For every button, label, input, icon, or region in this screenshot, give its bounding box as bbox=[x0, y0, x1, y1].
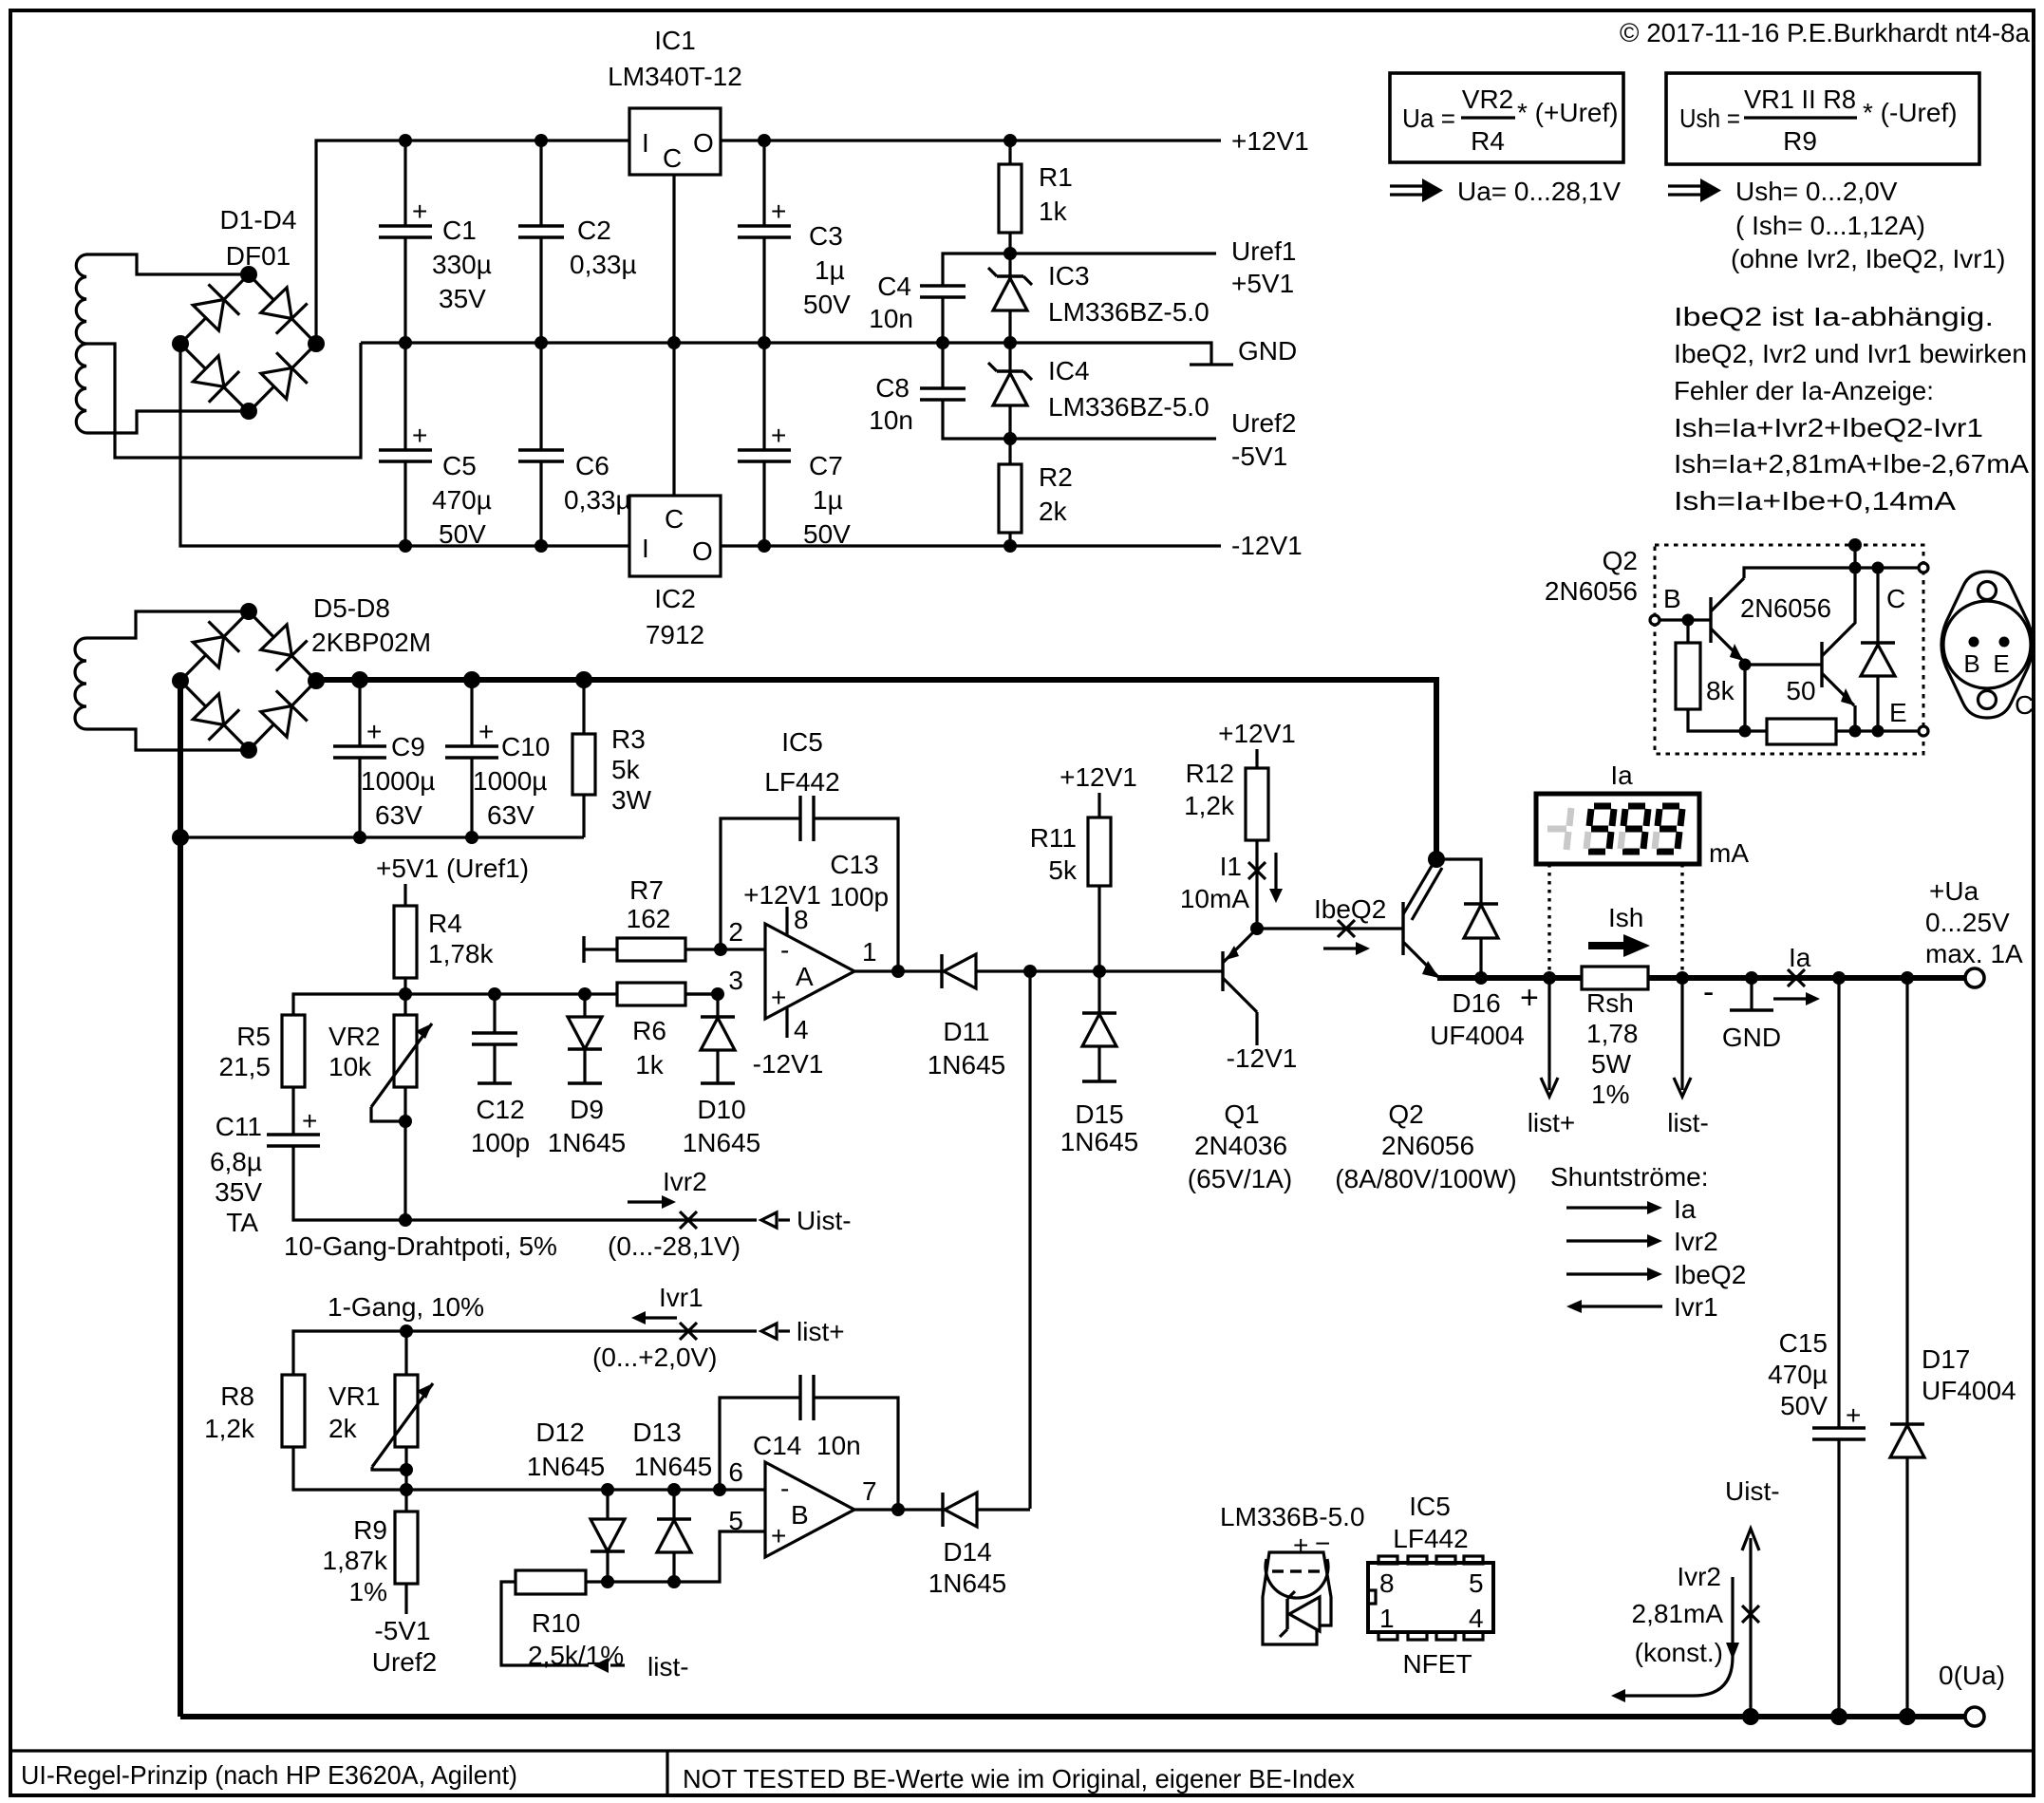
svg-text:+: + bbox=[771, 983, 786, 1012]
svg-text:63V: 63V bbox=[375, 800, 422, 830]
resistor 8k (inset) bbox=[1676, 620, 1745, 731]
svg-text:+5V1 (Uref1): +5V1 (Uref1) bbox=[376, 854, 529, 883]
svg-text:-5V1: -5V1 bbox=[1231, 441, 1287, 471]
svg-text:35V: 35V bbox=[439, 284, 486, 313]
svg-text:IC1: IC1 bbox=[654, 26, 696, 55]
svg-text:1000µ: 1000µ bbox=[473, 766, 547, 796]
resistor R5 bbox=[282, 1015, 305, 1135]
diode D1 (left-top edge) bbox=[193, 300, 224, 331]
svg-text:+: + bbox=[302, 1106, 317, 1136]
svg-text:R1: R1 bbox=[1039, 162, 1073, 192]
capacitor C13 bbox=[721, 796, 898, 971]
svg-text:1N645: 1N645 bbox=[527, 1452, 606, 1481]
arrow Uist- bbox=[761, 1212, 790, 1228]
wire Uist- sense line bbox=[399, 1213, 412, 1227]
svg-text:VR1: VR1 bbox=[328, 1381, 380, 1411]
svg-text:IbeQ2: IbeQ2 bbox=[1674, 1260, 1746, 1289]
svg-text:+12V1: +12V1 bbox=[743, 880, 821, 910]
svg-text:NFET: NFET bbox=[1402, 1649, 1472, 1679]
diode D5 (left-top edge) bbox=[193, 637, 224, 668]
diode D6 (top-right edge) bbox=[261, 625, 292, 656]
svg-text:IbeQ2: IbeQ2 bbox=[1314, 894, 1386, 924]
svg-text:1: 1 bbox=[1379, 1604, 1395, 1633]
inset dotted box bbox=[1655, 545, 1923, 754]
svg-text:R5: R5 bbox=[236, 1022, 271, 1051]
svg-text:LF442: LF442 bbox=[1393, 1524, 1468, 1553]
svg-text:O: O bbox=[693, 128, 714, 158]
transistor T1 (inset 2N6056 driver) bbox=[1711, 578, 1744, 661]
svg-text:5: 5 bbox=[1469, 1568, 1484, 1598]
svg-text:* (-Uref): * (-Uref) bbox=[1863, 98, 1958, 127]
svg-text:7912: 7912 bbox=[646, 620, 704, 649]
node D11 output junction bbox=[1023, 965, 1037, 978]
node bridge1 AC2 bbox=[240, 403, 257, 420]
title box divider bbox=[666, 1751, 668, 1795]
wire T2 top lead bbox=[86, 611, 249, 638]
wire W2 bottom lead to bridge AC2 bbox=[86, 411, 249, 433]
svg-text:2,81mA: 2,81mA bbox=[1632, 1599, 1724, 1628]
svg-text:IC5: IC5 bbox=[1409, 1492, 1451, 1521]
resistor R11 bbox=[1060, 762, 1137, 971]
svg-text:2N6056: 2N6056 bbox=[1545, 576, 1638, 606]
svg-text:4: 4 bbox=[1469, 1604, 1484, 1633]
arrow implies Ush bbox=[1668, 178, 1721, 202]
resistor R12 bbox=[1218, 719, 1296, 929]
svg-text:R2: R2 bbox=[1039, 462, 1073, 492]
svg-text:D14: D14 bbox=[943, 1537, 991, 1567]
diode D15 bbox=[1082, 971, 1116, 1081]
svg-text:UF4004: UF4004 bbox=[1922, 1376, 2016, 1405]
wire B to T1 base bbox=[1660, 618, 1711, 621]
svg-text:C4: C4 bbox=[877, 272, 911, 301]
capacitor C6 bbox=[518, 343, 564, 546]
diode D4 (bottom-right edge) bbox=[261, 368, 292, 400]
svg-text:2N6056: 2N6056 bbox=[1740, 593, 1831, 623]
svg-text:7: 7 bbox=[862, 1476, 877, 1506]
svg-text:Ush= 0...2,0V: Ush= 0...2,0V bbox=[1735, 177, 1898, 206]
terminal C (inset) bbox=[1919, 563, 1928, 573]
svg-text:0(Ua): 0(Ua) bbox=[1939, 1661, 2005, 1690]
svg-text:C15: C15 bbox=[1779, 1328, 1828, 1358]
svg-text:list-: list- bbox=[1667, 1108, 1709, 1137]
node bridge1 AC1 bbox=[240, 266, 257, 283]
svg-text:1k: 1k bbox=[635, 1050, 665, 1080]
svg-text:Ua =: Ua = bbox=[1402, 103, 1455, 133]
capacitor C12 bbox=[472, 994, 517, 1083]
svg-text:B: B bbox=[1963, 649, 1979, 678]
Q2 equivalent-circuit inset bbox=[1545, 538, 1928, 754]
diode D12 bbox=[591, 1490, 625, 1582]
svg-text:1,87k: 1,87k bbox=[323, 1546, 388, 1575]
svg-text:0...25V: 0...25V bbox=[1925, 908, 2010, 937]
svg-text:C11: C11 bbox=[216, 1112, 262, 1141]
svg-text:Ish=Ia+Ivr2+IbeQ2-Ivr1: Ish=Ia+Ivr2+IbeQ2-Ivr1 bbox=[1674, 413, 1983, 442]
svg-text:D5-D8: D5-D8 bbox=[313, 593, 390, 623]
svg-text:D15: D15 bbox=[1075, 1099, 1123, 1129]
svg-text:1000µ: 1000µ bbox=[361, 766, 435, 796]
svg-text:IbeQ2, Ivr2 und Ivr1 bewirken: IbeQ2, Ivr2 und Ivr1 bewirken bbox=[1674, 339, 2027, 368]
op-amp IC5A bbox=[728, 880, 876, 1079]
svg-text:IbeQ2 ist Ia-abhängig.: IbeQ2 ist Ia-abhängig. bbox=[1674, 302, 1994, 331]
dotted meter lead list- bbox=[1680, 864, 1683, 978]
potentiometer VR1 bbox=[372, 1331, 433, 1490]
svg-text:C1: C1 bbox=[442, 216, 477, 245]
svg-text:1,2k: 1,2k bbox=[1184, 791, 1235, 820]
svg-text:(65V/1A): (65V/1A) bbox=[1188, 1164, 1293, 1193]
svg-text:max. 1A: max. 1A bbox=[1925, 939, 2023, 968]
bridge rectifier D5-D8 2KBP02M bbox=[180, 611, 316, 750]
svg-text:C10: C10 bbox=[501, 732, 550, 761]
wire center tap to GND rail bbox=[86, 343, 361, 458]
svg-text:-5V1: -5V1 bbox=[374, 1616, 430, 1645]
digit 9 #3 bbox=[1655, 806, 1682, 852]
svg-text:O: O bbox=[692, 536, 713, 566]
arrow list+ down bbox=[1541, 971, 1558, 1097]
digit 9 #2 bbox=[1621, 806, 1648, 852]
terminal B (inset) bbox=[1650, 615, 1660, 625]
svg-text:Uref1: Uref1 bbox=[1231, 236, 1296, 266]
resistor R3 bbox=[572, 680, 595, 837]
svg-text:D12: D12 bbox=[535, 1418, 584, 1447]
svg-text:1N645: 1N645 bbox=[1060, 1127, 1139, 1156]
svg-text:+: + bbox=[1520, 980, 1539, 1016]
svg-text:3W: 3W bbox=[611, 785, 652, 815]
svg-text:Ish=Ia+Ibe+0,14mA: Ish=Ia+Ibe+0,14mA bbox=[1674, 486, 1956, 516]
svg-text:-12V1: -12V1 bbox=[1227, 1043, 1298, 1073]
wire top rail C bbox=[1855, 566, 1919, 569]
svg-text:D10: D10 bbox=[697, 1095, 745, 1124]
diode D2 (top-right edge) bbox=[261, 288, 292, 319]
svg-text:+12V1: +12V1 bbox=[1218, 719, 1296, 748]
svg-text:-12V1: -12V1 bbox=[1231, 531, 1303, 560]
svg-text:IC5: IC5 bbox=[781, 727, 823, 757]
svg-text:D13: D13 bbox=[632, 1418, 681, 1447]
diode D13 bbox=[657, 1490, 691, 1582]
node bridge2 AC2 bbox=[240, 742, 257, 759]
svg-text:63V: 63V bbox=[487, 800, 534, 830]
wire T1 emitter to T2 base bbox=[1745, 663, 1822, 666]
svg-text:I: I bbox=[642, 534, 649, 563]
svg-text:5: 5 bbox=[728, 1506, 743, 1535]
svg-text:10-Gang-Drahtpoti, 5%: 10-Gang-Drahtpoti, 5% bbox=[284, 1231, 557, 1261]
svg-text:1µ: 1µ bbox=[813, 485, 843, 515]
svg-text:6: 6 bbox=[728, 1457, 743, 1487]
svg-text:I: I bbox=[642, 128, 649, 158]
svg-text:R9: R9 bbox=[1783, 126, 1817, 156]
svg-text:C3: C3 bbox=[809, 221, 843, 251]
wire -12V1 rail after IC2 bbox=[721, 544, 1221, 547]
svg-text:C: C bbox=[1886, 584, 1905, 613]
svg-text:B: B bbox=[791, 1500, 809, 1530]
svg-text:VR2: VR2 bbox=[328, 1022, 380, 1051]
svg-text:10k: 10k bbox=[328, 1052, 372, 1081]
svg-text:Ia: Ia bbox=[1789, 943, 1811, 972]
node bridge2 AC1 bbox=[240, 603, 257, 620]
svg-text:Ia: Ia bbox=[1610, 761, 1633, 790]
terminal +Ua bbox=[1965, 968, 1984, 987]
wire +raw rail to IC1 bbox=[316, 141, 629, 344]
svg-text:100p: 100p bbox=[830, 882, 889, 911]
resistor R2 bbox=[999, 439, 1022, 546]
svg-text:A: A bbox=[796, 962, 814, 991]
svg-text:LM336BZ-5.0: LM336BZ-5.0 bbox=[1048, 297, 1210, 327]
svg-text:(konst.): (konst.) bbox=[1635, 1638, 1723, 1667]
svg-text:Q2: Q2 bbox=[1388, 1099, 1423, 1129]
svg-text:(8A/80V/100W): (8A/80V/100W) bbox=[1335, 1164, 1516, 1193]
capacitor C14 bbox=[720, 1375, 898, 1510]
svg-text:1,78: 1,78 bbox=[1586, 1019, 1639, 1048]
svg-text:1: 1 bbox=[862, 937, 877, 967]
svg-text:TA: TA bbox=[226, 1208, 258, 1237]
svg-text:4: 4 bbox=[794, 1015, 809, 1044]
svg-text:Q2: Q2 bbox=[1603, 546, 1638, 575]
svg-text:1N645: 1N645 bbox=[548, 1128, 627, 1157]
svg-text:E: E bbox=[1889, 698, 1907, 727]
svg-text:+: + bbox=[412, 197, 427, 226]
svg-text:Uist-: Uist- bbox=[797, 1206, 852, 1235]
diode D14 bbox=[943, 1493, 1030, 1527]
svg-text:Shuntströme:: Shuntströme: bbox=[1550, 1162, 1709, 1192]
svg-text:100p: 100p bbox=[471, 1128, 530, 1157]
pin 8 stub bbox=[785, 907, 788, 935]
svg-text:mA: mA bbox=[1709, 838, 1749, 868]
resistor R10 bbox=[501, 1570, 589, 1665]
wire op-amp A output bbox=[854, 969, 921, 972]
svg-text:D16: D16 bbox=[1452, 988, 1500, 1018]
svg-text:5k: 5k bbox=[1048, 855, 1078, 885]
svg-text:2k: 2k bbox=[1039, 497, 1068, 526]
IC5 DIP-8 package NFET bbox=[1368, 1492, 1493, 1679]
svg-text:Ivr2: Ivr2 bbox=[1674, 1227, 1718, 1256]
resistor 50 (inset) bbox=[1745, 719, 1919, 744]
svg-text:C13: C13 bbox=[830, 850, 878, 879]
diode D7 (left-bottom edge) bbox=[193, 694, 224, 725]
svg-text:1N645: 1N645 bbox=[928, 1568, 1007, 1598]
svg-text:Ivr1: Ivr1 bbox=[659, 1283, 703, 1312]
wire list+ line (VR1 top rail) bbox=[293, 1331, 757, 1375]
diode D16 bbox=[1436, 859, 1498, 978]
wire thick 0V vertical bbox=[178, 681, 183, 1717]
reference LM336B-5.0 symbol bbox=[1220, 1502, 1365, 1644]
svg-text:1%: 1% bbox=[349, 1577, 387, 1606]
svg-text:-: - bbox=[780, 1474, 789, 1503]
zener reference IC4 LM336BZ-5.0 bbox=[988, 343, 1032, 439]
svg-text:21,5: 21,5 bbox=[219, 1052, 272, 1081]
svg-text:50: 50 bbox=[1786, 676, 1815, 705]
diode D11 bbox=[921, 954, 1101, 988]
svg-text:2N4036: 2N4036 bbox=[1194, 1131, 1287, 1160]
svg-text:Ivr1: Ivr1 bbox=[1674, 1292, 1718, 1322]
svg-text:D1-D4: D1-D4 bbox=[220, 205, 297, 235]
svg-text:2,5k/1%: 2,5k/1% bbox=[528, 1641, 624, 1670]
svg-text:2KBP02M: 2KBP02M bbox=[311, 628, 431, 657]
terminal 0(Ua) bbox=[1965, 1707, 1984, 1726]
svg-text:1N645: 1N645 bbox=[683, 1128, 761, 1157]
current mark IbeQ2 bbox=[1323, 920, 1370, 955]
resistor R6 bbox=[617, 983, 718, 1005]
wire T2 bottom lead bbox=[86, 729, 249, 750]
svg-text:+: + bbox=[771, 1521, 786, 1550]
regulator IC2 7912 bbox=[629, 496, 721, 576]
node bridge2 plus bbox=[308, 672, 325, 689]
diode D17 bbox=[1890, 971, 1924, 1717]
formula box Ush bbox=[1666, 73, 1979, 164]
terminal E (inset) bbox=[1919, 726, 1928, 736]
svg-text:2: 2 bbox=[728, 917, 743, 947]
svg-text:DF01: DF01 bbox=[226, 241, 291, 271]
svg-text:Ivr2: Ivr2 bbox=[1677, 1562, 1721, 1591]
wire Vref set rail bbox=[293, 994, 718, 1015]
transformer T2 winding bbox=[75, 638, 86, 729]
arrow list- down bbox=[1674, 971, 1691, 1097]
svg-text:VR2: VR2 bbox=[1462, 85, 1513, 114]
wire IC1 common pin bbox=[672, 175, 675, 496]
transistor T2 (inset 2N6056 output) bbox=[1822, 568, 1855, 731]
svg-text:C14: C14 bbox=[753, 1431, 801, 1460]
svg-text:D9: D9 bbox=[570, 1095, 604, 1124]
capacitor C2 bbox=[518, 141, 564, 343]
svg-text:( Ish= 0...1,12A): ( Ish= 0...1,12A) bbox=[1735, 211, 1925, 240]
svg-text:0,33µ: 0,33µ bbox=[564, 485, 631, 515]
svg-text:(0...+2,0V): (0...+2,0V) bbox=[592, 1343, 718, 1372]
capacitor C8 bbox=[920, 343, 1010, 439]
svg-text:UI-Regel-Prinzip (nach HP E362: UI-Regel-Prinzip (nach HP E3620A, Agilen… bbox=[21, 1760, 517, 1790]
svg-text:R3: R3 bbox=[611, 724, 646, 754]
wire op-amp B output bbox=[854, 1508, 943, 1511]
capacitor C10 bbox=[445, 680, 498, 837]
pin 4 stub bbox=[785, 1008, 788, 1038]
svg-text:+: + bbox=[412, 421, 427, 450]
svg-text:R10: R10 bbox=[532, 1608, 580, 1638]
op-amp IC5B bbox=[728, 1457, 876, 1557]
capacitor C7 bbox=[738, 343, 791, 546]
wire Ush set rail bbox=[406, 1488, 765, 1491]
wire op-amp B plus input rail bbox=[586, 1531, 765, 1582]
svg-text:+: + bbox=[771, 421, 786, 450]
digit 9 #1 bbox=[1586, 806, 1614, 852]
svg-text:10n: 10n bbox=[869, 304, 913, 333]
svg-text:Ush =: Ush = bbox=[1679, 103, 1740, 133]
resistor R1 bbox=[999, 141, 1022, 254]
svg-text:162: 162 bbox=[627, 904, 671, 933]
svg-text:-: - bbox=[1703, 974, 1714, 1010]
wire +12V1 rail after IC1 bbox=[721, 139, 1221, 141]
svg-text:IC4: IC4 bbox=[1048, 356, 1090, 385]
ground symbol GND (top) bbox=[1190, 363, 1233, 366]
wire Uref1 line bbox=[943, 254, 1216, 286]
svg-text:-12V1: -12V1 bbox=[753, 1049, 824, 1079]
svg-text:5W: 5W bbox=[1591, 1049, 1632, 1079]
svg-text:list-: list- bbox=[647, 1652, 689, 1681]
svg-text:Rsh: Rsh bbox=[1586, 988, 1634, 1018]
svg-text:5k: 5k bbox=[611, 755, 641, 784]
wire IbeQ2 base line bbox=[1257, 927, 1403, 930]
svg-text:D11: D11 bbox=[943, 1017, 989, 1046]
svg-text:* (+Uref): * (+Uref) bbox=[1517, 98, 1619, 127]
svg-text:R8: R8 bbox=[220, 1381, 254, 1411]
capacitor C4 bbox=[920, 286, 966, 343]
svg-text:10n: 10n bbox=[869, 405, 913, 435]
resistor R4 bbox=[394, 884, 417, 994]
svg-text:Uref2: Uref2 bbox=[1231, 408, 1296, 438]
svg-text:D17: D17 bbox=[1922, 1344, 1970, 1374]
capacitor C3 bbox=[738, 141, 791, 343]
diode D8 (bottom-right edge) bbox=[261, 706, 292, 738]
svg-text:1N645: 1N645 bbox=[928, 1050, 1006, 1080]
node bridge1 plus bbox=[308, 335, 325, 352]
svg-text:GND: GND bbox=[1238, 336, 1297, 366]
wire T1 collector to top rail bbox=[1744, 568, 1855, 578]
node D16 anode on rail bbox=[1474, 971, 1488, 985]
svg-text:35V: 35V bbox=[215, 1177, 262, 1207]
svg-text:UF4004: UF4004 bbox=[1430, 1021, 1525, 1050]
svg-text:C12: C12 bbox=[476, 1095, 524, 1124]
wire raw bottom rail bbox=[180, 836, 584, 838]
svg-text:-: - bbox=[780, 935, 789, 965]
svg-text:IC2: IC2 bbox=[654, 584, 696, 613]
svg-text:10mA: 10mA bbox=[1180, 884, 1249, 913]
svg-text:LM336B-5.0: LM336B-5.0 bbox=[1220, 1502, 1365, 1531]
capacitor C9 bbox=[333, 680, 386, 837]
svg-text:+: + bbox=[1293, 1531, 1308, 1560]
svg-text:C9: C9 bbox=[391, 732, 425, 761]
capacitor C5 bbox=[379, 343, 432, 546]
svg-text:8: 8 bbox=[1379, 1568, 1395, 1598]
svg-text:Uref2: Uref2 bbox=[372, 1647, 437, 1677]
svg-text:+5V1: +5V1 bbox=[1231, 269, 1294, 298]
svg-text:(0...-28,1V): (0...-28,1V) bbox=[608, 1231, 741, 1261]
capacitor C1 bbox=[379, 141, 432, 343]
svg-text:C8: C8 bbox=[875, 373, 909, 403]
title separator line bbox=[10, 1749, 2033, 1752]
svg-text:50V: 50V bbox=[439, 519, 486, 549]
svg-text:LF442: LF442 bbox=[764, 767, 839, 797]
wire -raw rail (left of IC2) bbox=[180, 344, 629, 546]
svg-text:R4: R4 bbox=[428, 909, 462, 938]
svg-text:+: + bbox=[771, 197, 786, 226]
svg-text:R9: R9 bbox=[353, 1515, 387, 1545]
svg-text:+: + bbox=[366, 717, 382, 746]
svg-text:Ish: Ish bbox=[1608, 903, 1643, 932]
arrow list+ bbox=[761, 1324, 790, 1339]
svg-text:NOT TESTED BE-Werte wie im Or: NOT TESTED BE-Werte wie im Original, eig… bbox=[683, 1764, 1355, 1794]
svg-text:3: 3 bbox=[728, 966, 743, 995]
svg-text:6,8µ: 6,8µ bbox=[210, 1147, 262, 1176]
svg-text:list+: list+ bbox=[1528, 1108, 1576, 1137]
svg-text:C5: C5 bbox=[442, 451, 477, 480]
svg-text:1,78k: 1,78k bbox=[428, 939, 494, 968]
svg-text:470µ: 470µ bbox=[432, 485, 492, 515]
svg-text:330µ: 330µ bbox=[432, 250, 492, 279]
diode D10 bbox=[701, 994, 735, 1083]
svg-text:C: C bbox=[663, 143, 682, 173]
TO-3 package drawing bbox=[1941, 572, 2034, 720]
svg-text:Uist-: Uist- bbox=[1725, 1476, 1780, 1506]
svg-text:50V: 50V bbox=[803, 290, 851, 319]
svg-text:1µ: 1µ bbox=[815, 255, 845, 285]
wire W1 top lead to bridge AC1 bbox=[86, 254, 249, 274]
diode D9 bbox=[568, 994, 602, 1083]
svg-text:50V: 50V bbox=[1780, 1391, 1828, 1420]
node Q2 collector bbox=[1428, 851, 1445, 868]
svg-text:C: C bbox=[665, 504, 684, 534]
svg-text:1%: 1% bbox=[1591, 1080, 1629, 1109]
svg-text:1k: 1k bbox=[1039, 197, 1068, 226]
svg-text:IC3: IC3 bbox=[1048, 261, 1090, 291]
svg-text:GND: GND bbox=[1722, 1023, 1781, 1052]
svg-text:Ish=Ia+2,81mA+Ibe-2,67mA: Ish=Ia+2,81mA+Ibe-2,67mA bbox=[1674, 449, 2029, 479]
ammeter display Ia bbox=[1536, 794, 1699, 864]
